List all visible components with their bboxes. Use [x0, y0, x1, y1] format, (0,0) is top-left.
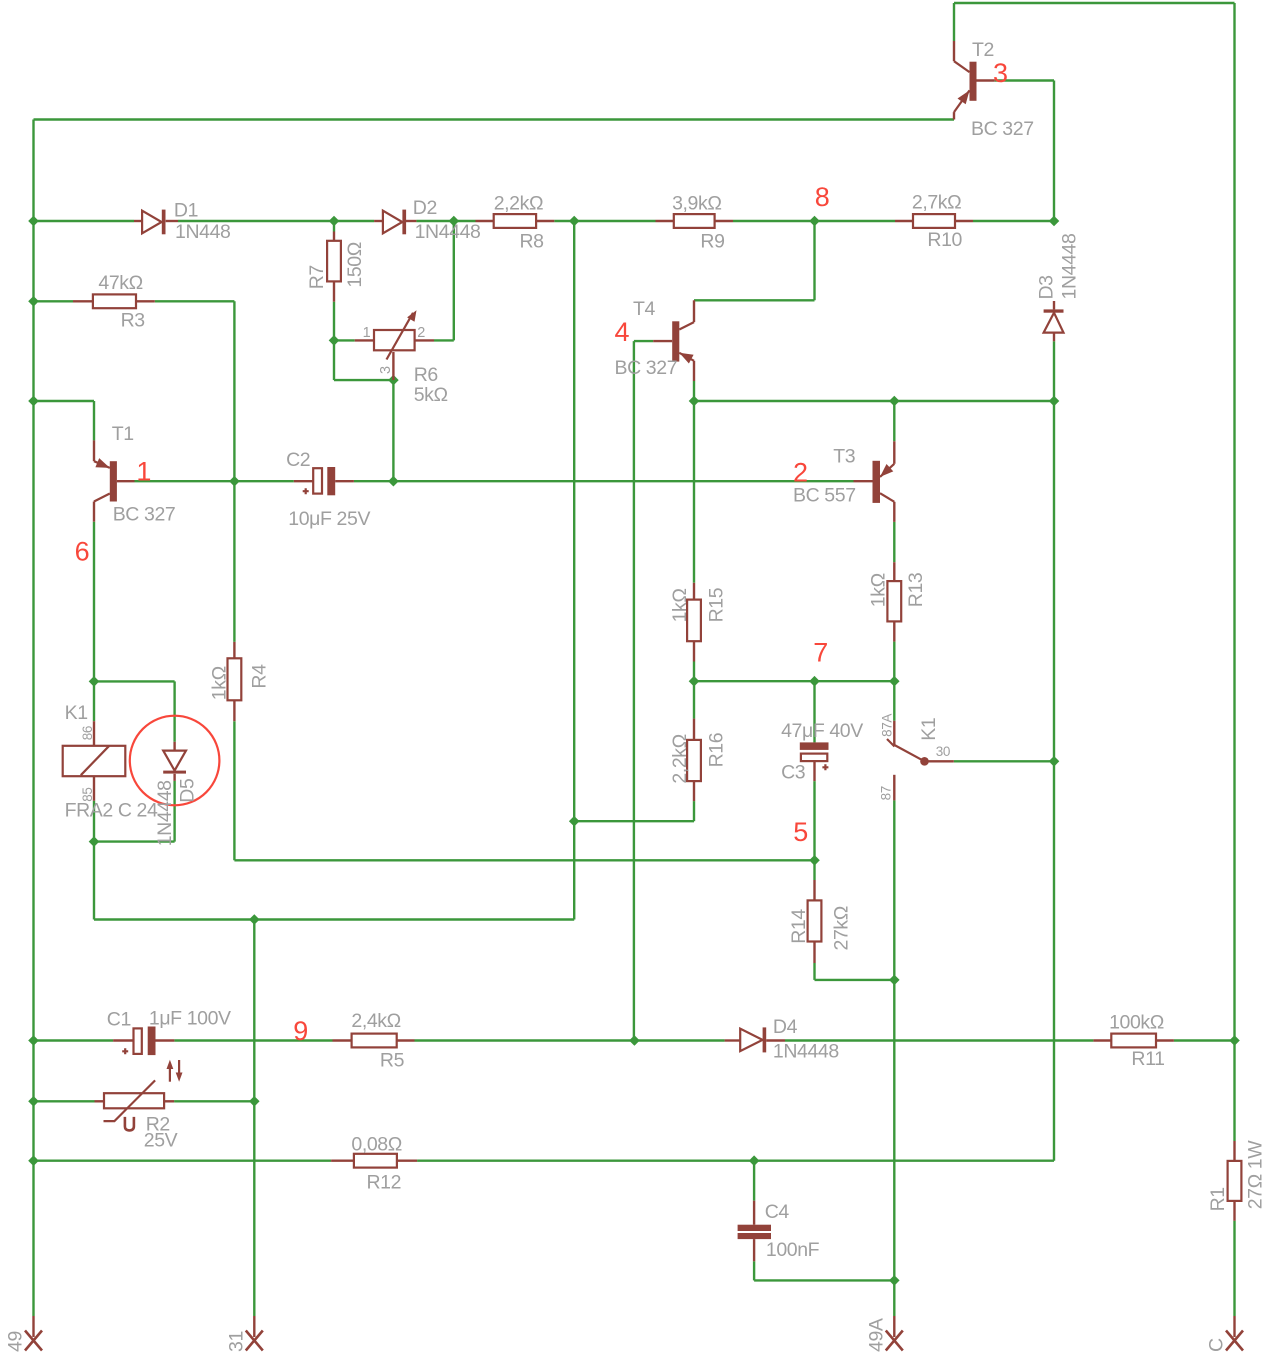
wire row221 seg3: [334, 220, 374, 222]
pin T4 emitter: [693, 361, 695, 381]
potentiometer R6 body: [374, 330, 415, 350]
svg-text:30: 30: [936, 744, 950, 759]
lead C4 top: [753, 1201, 755, 1225]
wire T1 emitter row: [34, 400, 95, 402]
lead R3 right: [136, 300, 155, 302]
svg-text:C2: C2: [286, 449, 310, 471]
varistor R2 U mark: [125, 1117, 134, 1131]
diode D3 triangle: [1044, 313, 1064, 333]
wire long vertical x574: [573, 221, 575, 920]
wire row221 seg9 (R10 to D3 rail): [973, 220, 1054, 222]
junction node (33.5,1101.3): [28, 1096, 39, 1107]
wire row221 seg7 (R9 to node 8): [733, 220, 815, 222]
lead R14 bottom: [813, 942, 815, 964]
svg-text:1N4448: 1N4448: [415, 221, 481, 243]
junction node (634.4,1040.5): [629, 1035, 640, 1046]
wire K1 30 right: [954, 760, 1054, 762]
wire D2 node down: [453, 221, 455, 340]
wire R2 right: [174, 1100, 254, 1102]
pin T4 collector: [693, 300, 695, 322]
svg-text:87A: 87A: [879, 714, 894, 737]
svg-text:C4: C4: [765, 1201, 790, 1223]
junction node (574.2,821.2): [569, 816, 580, 827]
svg-text:2,2kΩ: 2,2kΩ: [494, 192, 543, 214]
pin T4 base: [653, 340, 672, 342]
lead R3 left: [73, 300, 93, 302]
varistor R2 up arrow shaft: [169, 1066, 171, 1082]
wire D5 top down: [173, 681, 175, 741]
wire row1160 seg1: [34, 1159, 332, 1161]
pin pad 49: [32, 1316, 34, 1337]
junction node (814.5,681.2): [809, 676, 820, 687]
svg-text:K1: K1: [65, 702, 88, 724]
junction node (814.5,221): [809, 216, 820, 227]
relay K1 contact pivot dot: [920, 757, 929, 766]
resistor R15 body: [687, 600, 701, 642]
resistor R3 body: [93, 294, 136, 308]
pin T3 base: [854, 480, 873, 482]
wire x894 below 87: [893, 800, 895, 1316]
svg-text:D4: D4: [773, 1016, 798, 1038]
capacitor C3 plus plate: [801, 754, 827, 762]
pad 31 cross: [246, 1331, 263, 1351]
wire T3 emitter up: [893, 401, 895, 441]
svg-text:4: 4: [615, 317, 630, 347]
svg-text:D3: D3: [1035, 275, 1057, 299]
lead D5 cathode: [173, 774, 175, 781]
svg-text:27Ω 1W: 27Ω 1W: [1245, 1140, 1266, 1210]
lead C1 right: [156, 1039, 175, 1041]
wire R16 bottom: [693, 801, 695, 821]
wire R14 top stub: [813, 860, 815, 880]
wire T4 base left: [634, 340, 653, 342]
pin T2 emitter: [953, 112, 955, 119]
svg-text:BC 327: BC 327: [971, 118, 1034, 140]
junction node (694,401): [689, 396, 700, 407]
capacitor C2 plus sign: [303, 488, 309, 494]
junction node (754.1,1160.7): [749, 1155, 760, 1166]
wire row860 (net 5): [234, 859, 814, 861]
lead D3 cathode: [1053, 301, 1055, 309]
svg-text:R10: R10: [927, 229, 962, 251]
svg-text:T4: T4: [633, 298, 656, 320]
lead R2 right: [164, 1100, 174, 1102]
potentiometer R6 wiper arrowhead: [407, 310, 416, 322]
svg-text:49: 49: [5, 1331, 27, 1352]
svg-text:R5: R5: [380, 1049, 405, 1071]
resistor R4 body: [228, 658, 242, 700]
wire R14 row to x894: [815, 979, 895, 981]
pin T3 collector: [893, 502, 895, 522]
capacitor C3 plus sign: [822, 764, 828, 770]
junction node (94,841.6): [89, 836, 100, 847]
pin T2 base: [977, 79, 995, 81]
wire T1 base node down to R4: [233, 481, 235, 642]
svg-text:R9: R9: [700, 230, 724, 252]
lead R10 left: [895, 220, 913, 222]
svg-text:R15: R15: [705, 587, 727, 622]
svg-text:FRA2 C 24: FRA2 C 24: [65, 800, 158, 822]
wire row1160 seg2: [417, 1159, 1054, 1161]
resistor R5 body: [352, 1034, 397, 1048]
pin K1 coil 86: [93, 721, 95, 746]
svg-text:87: 87: [878, 786, 893, 800]
wire C3 bottom: [813, 781, 815, 860]
lead R13 top: [893, 562, 895, 581]
svg-text:25V: 25V: [144, 1129, 178, 1151]
capacitor C1 plus sign: [122, 1048, 128, 1054]
wire right rail lower (below R1): [1233, 1221, 1235, 1316]
capacitor C1 minus plate: [148, 1027, 156, 1056]
lead R12 right: [397, 1159, 417, 1161]
transistor T3 collector diagonal: [880, 493, 894, 502]
wire row221 seg5: [454, 220, 476, 222]
lead R6 pin3: [392, 352, 394, 380]
wire R4 bottom down: [233, 721, 235, 860]
lead R7 bottom: [333, 281, 335, 301]
diode D2 triangle: [383, 211, 402, 234]
lead R7 top: [333, 232, 335, 241]
pin T1 base: [117, 480, 135, 482]
lead R6 pin1: [355, 339, 374, 341]
wire row221 seg8: [815, 220, 896, 222]
wire VCC top rail: [954, 2, 1235, 4]
wire R3 down to T1 base node: [233, 301, 235, 481]
svg-text:1kΩ: 1kΩ: [669, 588, 691, 622]
wire D5 bottom down: [173, 781, 175, 842]
resistor R9 body: [674, 214, 715, 228]
junction node (894.3,681.2): [889, 676, 900, 687]
diode D4 triangle: [740, 1029, 762, 1051]
lead D3 anode: [1053, 333, 1055, 342]
capacitor C1 plus plate: [134, 1028, 142, 1054]
lead R1 bottom: [1233, 1201, 1235, 1221]
lead D4 cathode: [766, 1039, 785, 1041]
wire row1040 seg2 (C1 to R5): [174, 1039, 332, 1041]
wire coil pin85 down: [93, 801, 95, 842]
svg-text:100kΩ: 100kΩ: [1109, 1012, 1164, 1034]
resistor R8 body: [494, 214, 536, 228]
junction node (894.3,1280.4): [889, 1275, 900, 1286]
svg-text:R16: R16: [705, 733, 727, 768]
varistor R2 down arrowhead: [176, 1073, 183, 1082]
relay K1 coil diagonal: [81, 746, 109, 775]
wire row221 seg1: [34, 220, 135, 222]
lead R9 left: [656, 220, 674, 222]
wire x894 to K1 87A: [893, 681, 895, 721]
wire T1 base to C2: [135, 480, 294, 482]
svg-text:1kΩ: 1kΩ: [209, 666, 231, 700]
svg-text:BC 557: BC 557: [793, 485, 856, 507]
lead D1 anode: [134, 220, 142, 222]
junction node (1054,221): [1049, 216, 1060, 227]
wire R2 left stub: [34, 1100, 95, 1102]
wire left rail: [32, 120, 34, 1317]
svg-text:C: C: [1206, 1338, 1228, 1352]
svg-text:85: 85: [80, 787, 95, 801]
lead C2 left: [294, 480, 313, 482]
resistor R11 body: [1111, 1034, 1156, 1048]
svg-text:3: 3: [993, 58, 1008, 88]
lead R6 pin2: [415, 339, 434, 341]
svg-text:D1: D1: [174, 200, 198, 222]
resistor R10 body: [913, 214, 955, 228]
junction node (574.2,221): [569, 216, 580, 227]
svg-text:1μF 100V: 1μF 100V: [149, 1008, 231, 1030]
wire T1 emitter down: [93, 401, 95, 440]
svg-text:D5: D5: [177, 778, 199, 803]
junction node (33.5,221): [28, 216, 39, 227]
wire C3 top: [813, 681, 815, 742]
svg-text:1: 1: [363, 325, 371, 341]
lead R10 right: [955, 220, 973, 222]
wire R15 bottom: [693, 662, 695, 682]
lead R4 bottom: [233, 700, 235, 721]
junction node (1054,761.3): [1049, 756, 1060, 767]
wire row681 (net 7): [694, 680, 894, 682]
junction node (814.5,860.3): [809, 855, 820, 866]
svg-text:49A: 49A: [866, 1318, 888, 1352]
svg-text:2,4kΩ: 2,4kΩ: [351, 1010, 400, 1032]
junction node (334,221): [329, 216, 340, 227]
wire T2 base right: [995, 79, 1054, 81]
lead R5 left: [333, 1039, 352, 1041]
lead R11 left: [1093, 1039, 1111, 1041]
wire row1040 seg5 (D4 to R11): [785, 1039, 1093, 1041]
diode D5 cathode bar: [163, 771, 186, 774]
wire row221 seg4 (D2 to node): [416, 220, 453, 222]
lead R16 top: [693, 719, 695, 740]
junction node (254.3,919.5): [249, 914, 260, 925]
wire right rail upper: [1233, 3, 1235, 1141]
lead R15 bottom: [693, 641, 695, 661]
capacitor C4 plate 1: [738, 1225, 771, 1231]
varistor R2 up arrowhead: [167, 1060, 174, 1069]
wire C4 bottom: [753, 1261, 755, 1280]
svg-text:47μF 40V: 47μF 40V: [781, 720, 863, 742]
pin T2 collector: [953, 41, 955, 61]
diode D4 cathode bar: [763, 1027, 767, 1052]
lead R8 left: [476, 220, 494, 222]
transistor T1 base bar: [110, 461, 117, 501]
svg-text:1: 1: [136, 457, 151, 487]
junction node (393.4,481.2): [388, 476, 399, 487]
svg-text:150Ω: 150Ω: [344, 242, 366, 288]
lead K1 common 30: [925, 760, 954, 762]
pin pad 31: [253, 1316, 255, 1337]
junction node (94,681.4): [89, 676, 100, 687]
svg-text:2,7kΩ: 2,7kΩ: [912, 192, 961, 214]
svg-text:6: 6: [75, 537, 90, 567]
diode D2 cathode bar: [402, 210, 406, 235]
svg-text:1N4448: 1N4448: [773, 1041, 839, 1063]
wire row821: [574, 820, 694, 822]
lead D4 anode: [725, 1039, 741, 1041]
wire row1040 seg3 (R5 to node): [415, 1039, 635, 1041]
svg-text:R6: R6: [414, 364, 438, 386]
lead R12 left: [331, 1159, 354, 1161]
svg-text:0,08Ω: 0,08Ω: [351, 1133, 402, 1155]
wire R6 pin2 stub: [434, 339, 454, 341]
svg-text:R12: R12: [367, 1171, 402, 1193]
wire C4 top: [753, 1161, 755, 1201]
pin T1 emitter: [93, 440, 95, 461]
svg-text:1N4448: 1N4448: [1059, 234, 1081, 300]
pin K1 contact 87A: [893, 721, 895, 746]
wire D3 bottom down: [1053, 341, 1055, 401]
lead R9 right: [715, 220, 733, 222]
resistor R7 body: [327, 241, 341, 282]
transistor T4 emitter arrow: [679, 353, 693, 364]
pin K1 coil 85: [93, 776, 95, 801]
svg-text:7: 7: [813, 638, 828, 668]
lead R14 top: [813, 880, 815, 900]
svg-text:R1: R1: [1207, 1187, 1229, 1211]
capacitor C4 plate 2: [738, 1233, 771, 1239]
wire row221 seg6 (R8 to R9): [554, 220, 655, 222]
svg-text:D2: D2: [413, 197, 437, 219]
transistor T4 base bar: [672, 321, 679, 361]
svg-text:T3: T3: [833, 446, 855, 468]
relay K1 contact arm: [894, 745, 925, 762]
svg-text:9: 9: [293, 1016, 308, 1046]
svg-text:C3: C3: [781, 761, 805, 783]
lead R8 right: [536, 220, 554, 222]
svg-text:100nF: 100nF: [766, 1239, 820, 1261]
svg-text:1N448: 1N448: [175, 221, 230, 243]
wire row1040 seg1: [34, 1039, 114, 1041]
svg-text:5: 5: [793, 817, 808, 847]
wire D3 rail mid: [1053, 401, 1055, 761]
wire node8 down: [813, 221, 815, 300]
pin pad C: [1233, 1316, 1235, 1337]
svg-text:3,9kΩ: 3,9kΩ: [672, 192, 721, 214]
lead R11 right: [1156, 1039, 1174, 1041]
lead R4 top: [233, 642, 235, 658]
svg-text:K1: K1: [918, 718, 940, 741]
lead D1 cathode: [166, 220, 178, 222]
junction node (694,681.2): [689, 676, 700, 687]
lead R2 left: [95, 1100, 105, 1102]
transistor T2 emitter arrow: [958, 90, 970, 104]
svg-text:R3: R3: [121, 310, 145, 332]
transistor T1 emitter diagonal: [94, 461, 110, 468]
relay K1 contact seat tick: [887, 739, 895, 747]
lead C3 bottom: [813, 761, 815, 781]
transistor T2 emitter diagonal: [954, 90, 970, 112]
transistor T1 collector diagonal: [94, 494, 110, 502]
resistor R12 body: [354, 1154, 397, 1168]
capacitor C3 minus plate: [800, 742, 829, 750]
lead C4 bottom: [753, 1239, 755, 1261]
lead R5 right: [397, 1039, 415, 1041]
junction node (33.5,1160.7): [28, 1155, 39, 1166]
transistor T2 base bar: [970, 62, 977, 101]
junction node (33.5,1040.5): [28, 1035, 39, 1046]
junction node (894.3,401): [889, 396, 900, 407]
wire R7 top stub: [333, 221, 335, 232]
lead C1 left: [113, 1039, 133, 1041]
junction node (33.5,301.3): [28, 296, 39, 307]
wire R15 top: [693, 401, 695, 583]
junction node (1234.5,1040.5): [1229, 1035, 1240, 1046]
svg-text:2: 2: [793, 457, 808, 487]
wire R14 bottom: [813, 963, 815, 980]
capacitor C2 minus plate: [327, 467, 335, 495]
wire R7 bottom to node: [333, 302, 335, 341]
varistor R2 body: [104, 1093, 164, 1108]
svg-text:86: 86: [80, 726, 95, 740]
wire node to row380: [333, 340, 335, 380]
junction node (254.3,1101.3): [249, 1096, 260, 1107]
lead D5 anode: [173, 742, 175, 751]
junction node (33.5,401): [28, 396, 39, 407]
transistor T4 emitter diagonal: [679, 353, 694, 361]
svg-text:2,2kΩ: 2,2kΩ: [669, 734, 691, 783]
svg-text:10μF 25V: 10μF 25V: [288, 508, 370, 530]
svg-text:31: 31: [226, 1331, 248, 1352]
wire row401: [694, 400, 1054, 402]
svg-text:T1: T1: [112, 423, 134, 445]
junction node (234.4,481.2): [229, 476, 240, 487]
potentiometer R6 wiper line: [387, 313, 414, 360]
junction node (334,340.4): [329, 335, 340, 346]
wire D3 rail lower: [1053, 761, 1055, 1160]
wire R16 top stub: [693, 681, 695, 718]
wire T2 collector up: [953, 3, 955, 41]
junction node (1054,401): [1049, 396, 1060, 407]
wire T4 collector row: [694, 299, 815, 301]
wire row y119 (T2 emitter net): [34, 118, 955, 120]
svg-text:R4: R4: [248, 664, 270, 689]
svg-text:C1: C1: [107, 1008, 131, 1030]
svg-text:T2: T2: [972, 39, 994, 61]
wire T4 base rail down (net 4): [633, 341, 635, 1040]
wire row919: [94, 918, 574, 920]
svg-text:R8: R8: [520, 230, 544, 252]
pad 49 cross: [25, 1331, 42, 1351]
svg-text:2: 2: [417, 325, 425, 341]
diode D1 cathode bar: [162, 210, 166, 235]
wire row1040 seg4 (node to D4): [634, 1039, 724, 1041]
lead R1 top: [1233, 1141, 1235, 1161]
lead R15 top: [693, 583, 695, 600]
svg-text:R14: R14: [788, 909, 810, 944]
svg-text:R13: R13: [905, 573, 927, 608]
wire T3 collector to R13: [893, 522, 895, 562]
wire D5 bottom row: [94, 840, 175, 842]
svg-text:1kΩ: 1kΩ: [867, 573, 889, 607]
lead R16 bottom: [693, 781, 695, 801]
wire x254 vertical to pad 31: [253, 920, 255, 1317]
wire row221 seg2 (D1 to R7 node): [178, 220, 334, 222]
wire coil node down: [93, 842, 95, 920]
transistor T1 emitter arrow: [95, 458, 109, 468]
lead D2 anode: [374, 220, 383, 222]
diode D5 triangle: [163, 751, 186, 771]
resistor R13 body: [887, 581, 901, 621]
capacitor C2 plus plate: [313, 468, 322, 493]
wire R3 left stub: [34, 300, 74, 302]
transistor T2 collector diagonal: [954, 61, 970, 72]
lead D2 cathode: [406, 220, 417, 222]
D5 highlight circle: [130, 716, 220, 806]
resistor R16 body: [687, 740, 701, 781]
junction node (393.4,380.1): [388, 375, 399, 386]
svg-text:8: 8: [815, 182, 830, 212]
varistor R2 down arrow shaft: [178, 1060, 180, 1076]
transistor T3 emitter diagonal: [880, 464, 894, 477]
